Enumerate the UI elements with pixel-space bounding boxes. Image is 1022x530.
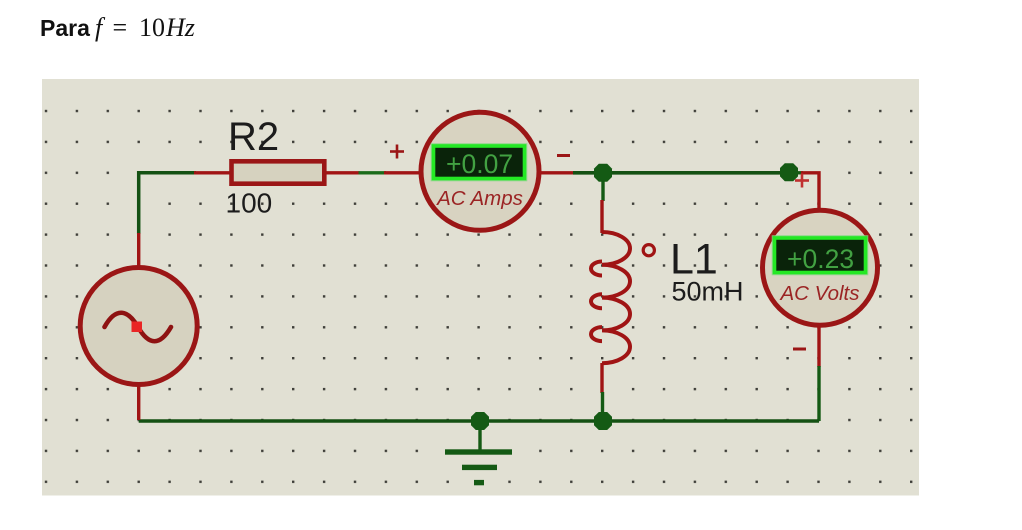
svg-text:50mH: 50mH — [672, 277, 744, 307]
polarity - of AM1 — [557, 154, 570, 157]
wire: bottom rail — [139, 419, 819, 423]
title: Para f = 10Hz — [40, 13, 195, 42]
wire: node B to VM1 corner — [789, 171, 803, 174]
wire: VM1 to bottom rail — [817, 366, 820, 421]
pin: V1 positive pin — [137, 233, 140, 267]
ammeter AM1 display — [432, 144, 527, 181]
polarity + of VM1 — [795, 174, 809, 188]
sine waveform of V1 — [105, 313, 172, 342]
svg-text:AC Amps: AC Amps — [435, 187, 523, 210]
wire: L1 to bottom rail — [601, 392, 604, 421]
wire: AM1 to node B — [573, 171, 789, 175]
junction node B — [780, 163, 798, 181]
svg-text:+0.23: +0.23 — [787, 244, 854, 274]
polarity + of AM1 — [390, 145, 404, 159]
pin: L1 top pin red part — [600, 200, 603, 233]
pin: AM1 minus pin — [539, 171, 574, 174]
ammeter AM1 reading +0.07 — [446, 149, 513, 179]
pin: VM1 plus pin — [801, 173, 819, 210]
svg-text:Para: Para — [40, 15, 90, 41]
svg-text:f: f — [95, 13, 106, 42]
ammeter AM1 body — [421, 112, 539, 230]
svg-text:R2: R2 — [228, 115, 279, 159]
pin: L1 top pin (wire from node A) — [601, 173, 604, 201]
inductor L1 coil — [591, 232, 630, 363]
wire: R2 to AM1 — [359, 171, 387, 174]
svg-text:100: 100 — [226, 188, 273, 219]
pin: AM1 plus pin — [384, 171, 421, 174]
svg-text:10: 10 — [139, 13, 165, 42]
voltmeter VM1 reading +0.23 — [787, 244, 854, 274]
pin: V1 negative pin — [137, 386, 140, 420]
pin: VM1 minus pin — [817, 326, 820, 367]
voltmeter VM1 display — [773, 236, 868, 275]
ac source V1 body — [80, 268, 197, 385]
value 50mH — [672, 277, 744, 307]
value 100 — [226, 188, 273, 219]
ground — [445, 421, 512, 485]
label R2 — [228, 115, 279, 159]
pin: L1 bottom pin — [600, 363, 603, 393]
label L1 — [670, 236, 718, 284]
label AC Volts — [779, 282, 860, 305]
junction node A — [594, 164, 612, 182]
svg-text:=: = — [113, 13, 128, 42]
label AC Amps — [435, 187, 523, 210]
L1 polarity dot — [643, 245, 654, 256]
polarity - of VM1 — [793, 348, 806, 351]
resistor R2 — [232, 161, 325, 183]
voltmeter VM1 body — [763, 210, 878, 325]
svg-text:+0.07: +0.07 — [446, 149, 513, 179]
wire: V1 top to corner and to R2 — [139, 173, 196, 234]
svg-text:AC Volts: AC Volts — [779, 282, 860, 305]
pin: R2 pin 1 — [194, 171, 230, 174]
junction node C (ground tap) — [471, 412, 489, 430]
origin dot of V1 — [132, 322, 143, 333]
pin: R2 pin 2 — [326, 171, 360, 174]
junction node D (L1 bottom) — [594, 412, 612, 430]
svg-text:Hz: Hz — [165, 13, 195, 42]
